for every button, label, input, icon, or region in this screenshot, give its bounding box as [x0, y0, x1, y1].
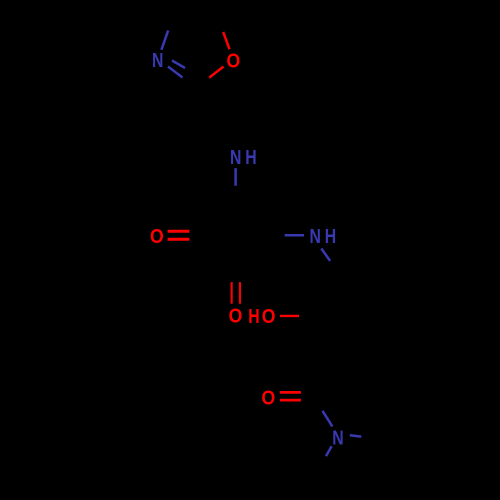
wire: N to right methyl (blue half) [350, 435, 362, 436]
wire: vertical C=O left line (red half) [231, 282, 233, 304]
wire: carbonyl C to N (blue half) [323, 411, 333, 427]
svg-text:H: H [248, 304, 259, 328]
wire: C=O double bond upper line (red half) [168, 230, 190, 233]
wire: N to lower-left methyl (blue half) [326, 446, 332, 456]
wire: amide C=O upper line (red half) [280, 391, 301, 394]
svg-text:O: O [261, 387, 275, 410]
wire: amide C=O lower line (red half) [280, 399, 301, 402]
svg-text:O: O [226, 50, 240, 73]
wire: HO to C (red half) [280, 315, 299, 317]
svg-text:N: N [309, 224, 320, 248]
wire: bond C to NH right (blue half) [285, 234, 304, 237]
svg-text:N: N [332, 425, 343, 449]
svg-text:H: H [325, 224, 336, 248]
wire: ring bond N-C4 (blue half) [161, 30, 168, 49]
wire: ring double bond N=C2 inner line [172, 61, 185, 69]
svg-text:O: O [229, 305, 243, 328]
svg-text:O: O [150, 226, 164, 249]
svg-text:O: O [262, 306, 276, 329]
wire: C=O double bond lower line (red half) [168, 238, 190, 241]
wire: NH down-right to CH2 (blue half) [321, 249, 330, 261]
wire: ring bond O-C2 (red half) [209, 67, 223, 78]
svg-text:H: H [245, 145, 256, 169]
svg-text:N: N [152, 48, 163, 72]
svg-text:N: N [230, 145, 241, 169]
wire: ring bond O-C5 (red half) [223, 32, 229, 49]
wire: vertical C=O right line (red half) [239, 282, 241, 304]
wire: ring double bond N=C2 main line [168, 67, 183, 78]
wire: NH to chain carbon (blue half) [234, 168, 237, 186]
